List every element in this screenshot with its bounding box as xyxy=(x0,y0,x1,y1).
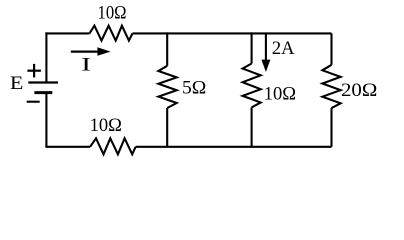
svg-text:10Ω: 10Ω xyxy=(98,4,127,24)
svg-text:10Ω: 10Ω xyxy=(264,85,296,105)
svg-text:5Ω: 5Ω xyxy=(182,78,206,98)
svg-text:2A: 2A xyxy=(272,39,295,59)
svg-text:10Ω: 10Ω xyxy=(90,116,122,136)
svg-text:20Ω: 20Ω xyxy=(341,81,377,101)
svg-text:E: E xyxy=(10,74,24,94)
svg-text:I: I xyxy=(81,56,91,76)
